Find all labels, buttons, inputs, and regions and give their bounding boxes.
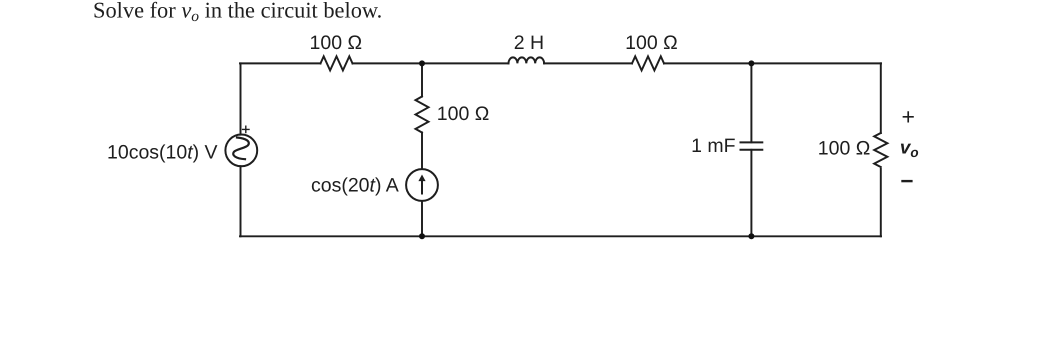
wire: middle branch, node A down to R2 — [421, 63, 423, 96]
wire: middle branch, current source down to node E — [421, 202, 423, 237]
wire: top rail, R3 to node B — [664, 62, 751, 64]
resistor R2 100Ω (middle branch, vertical) — [416, 97, 429, 133]
wire: top rail, inductor to R3 — [544, 62, 632, 64]
svg-text:+: + — [901, 104, 914, 130]
wire: right branch, top-right corner down to R4 — [880, 63, 882, 133]
resistor R1 100Ω (top rail, left) — [321, 56, 353, 70]
wire: left branch, top-left corner down to voltage source — [240, 63, 242, 134]
svg-text:Solve for vo in the circuit be: Solve for vo in the circuit below. — [93, 0, 382, 25]
wire: top rail, node B to top-right corner — [751, 62, 881, 64]
wire: bottom rail, left corner to bottom node E — [240, 235, 422, 237]
wire: middle branch, R2 down to current source — [421, 133, 423, 169]
svg-text:100 Ω: 100 Ω — [437, 103, 490, 125]
node E (bottom junction of middle branch) — [419, 233, 425, 239]
resistor R3 100Ω (top rail, right) — [632, 56, 664, 70]
current source IS cos(20t) A (circle with up arrow) — [406, 169, 438, 201]
label: − polarity of vo (drawn minus) — [901, 180, 912, 182]
node B (top junction of capacitor branch) — [748, 60, 754, 66]
resistor R4 100Ω (right branch, vertical) — [874, 133, 887, 167]
node F (bottom junction of capacitor branch) — [748, 233, 754, 239]
wire: right branch, R4 down to bottom-right corner — [880, 169, 882, 236]
wire: bottom rail, node F to bottom-right corner — [751, 235, 881, 237]
voltage source VS 10cos(10t) V (AC source circle with sine) — [225, 135, 257, 167]
inductor L1 2H — [509, 57, 545, 63]
wire: capacitor branch, bottom plate down to node F — [750, 150, 752, 237]
node A (top junction of middle branch) — [419, 60, 425, 66]
wire: top rail, R1 to node A — [353, 62, 423, 64]
svg-text:10cos(10t) V: 10cos(10t) V — [107, 142, 218, 164]
svg-text:100 Ω: 100 Ω — [818, 138, 871, 160]
wire: left branch, voltage source down to bottom-left corner — [240, 166, 242, 236]
svg-text:100 Ω: 100 Ω — [310, 32, 363, 54]
wire: bottom rail, node E to node F — [422, 235, 751, 237]
svg-text:1 mF: 1 mF — [691, 135, 736, 157]
svg-text:vo: vo — [900, 137, 919, 161]
+ polarity mark of voltage source — [243, 126, 249, 132]
svg-text:100 Ω: 100 Ω — [625, 32, 678, 54]
capacitor C1 1mF — [741, 142, 763, 149]
wire: capacitor branch, node B down to top plate — [750, 63, 752, 142]
svg-text:2 H: 2 H — [514, 32, 544, 54]
svg-text:cos(20t) A: cos(20t) A — [311, 174, 399, 196]
wire: top rail, node A to inductor — [422, 62, 509, 64]
wire: top rail, left corner to R1 — [240, 62, 321, 64]
